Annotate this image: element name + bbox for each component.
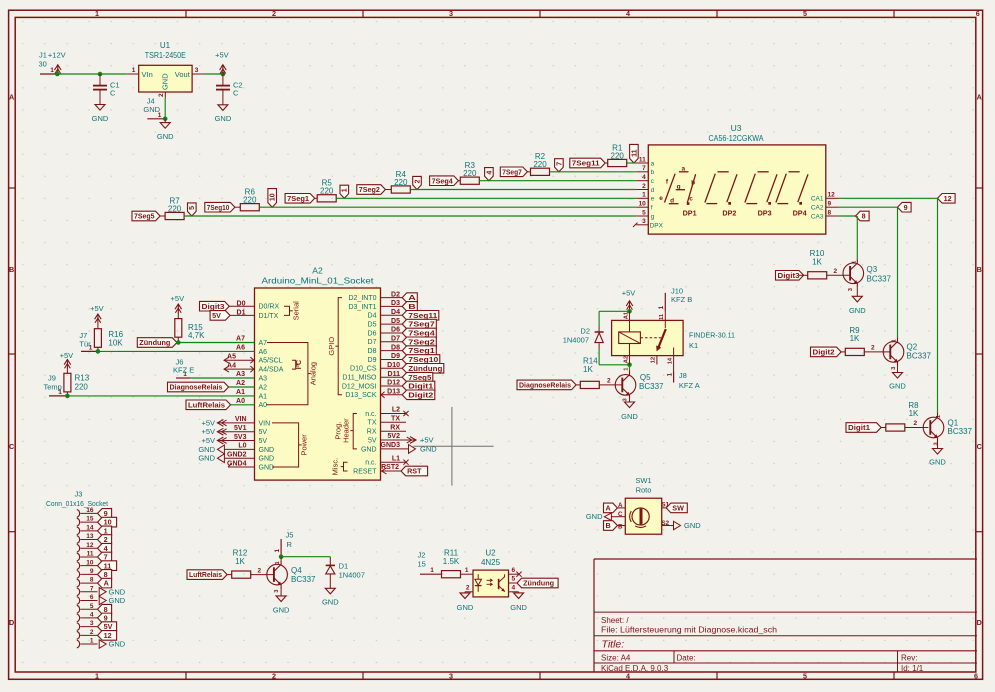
svg-text:2: 2 bbox=[104, 535, 108, 544]
wire bbox=[381, 394, 403, 396]
svg-text:14: 14 bbox=[667, 357, 673, 364]
global label 7Seg7 bbox=[500, 167, 527, 177]
svg-text:2: 2 bbox=[642, 183, 646, 190]
svg-text:A1: A1 bbox=[236, 389, 245, 396]
resistor R6 220 bbox=[240, 204, 259, 211]
svg-text:C: C bbox=[977, 442, 982, 451]
svg-text:Roto: Roto bbox=[636, 486, 652, 495]
svg-text:RX: RX bbox=[367, 429, 377, 436]
wire bbox=[98, 350, 255, 352]
ground bbox=[629, 399, 631, 402]
wire bbox=[629, 365, 631, 371]
svg-text:12: 12 bbox=[651, 357, 657, 363]
svg-text:5V1: 5V1 bbox=[234, 425, 247, 432]
svg-text:B: B bbox=[977, 265, 982, 274]
resistor R14 1K bbox=[580, 381, 599, 388]
global label 7Seg10 bbox=[402, 355, 440, 365]
resistor R4 220 bbox=[391, 186, 410, 193]
svg-text:A2: A2 bbox=[623, 356, 629, 363]
svg-text:14: 14 bbox=[86, 524, 94, 531]
global label 8 bbox=[856, 211, 870, 221]
svg-text:KFZ A: KFZ A bbox=[679, 381, 700, 390]
svg-text:1K: 1K bbox=[850, 334, 860, 343]
svg-text:A3: A3 bbox=[236, 371, 245, 378]
ground bbox=[518, 592, 520, 593]
svg-text:1: 1 bbox=[50, 67, 54, 74]
global label 7Seg4 bbox=[402, 328, 436, 338]
global label Digit3 bbox=[200, 301, 230, 311]
svg-text:A0: A0 bbox=[236, 398, 245, 405]
ground flag bbox=[674, 521, 681, 529]
wire bbox=[100, 73, 126, 75]
global label Zündung bbox=[137, 338, 177, 348]
wire bbox=[205, 73, 223, 75]
svg-text:6: 6 bbox=[512, 567, 516, 574]
resistor R11 1.5K bbox=[442, 571, 461, 578]
capacitor C1 bbox=[99, 74, 101, 85]
junction bbox=[627, 363, 632, 368]
wire bbox=[235, 206, 240, 208]
svg-text:RESET: RESET bbox=[353, 468, 377, 475]
svg-text:+5V: +5V bbox=[215, 51, 229, 60]
svg-text:5: 5 bbox=[642, 209, 646, 216]
svg-text:2: 2 bbox=[158, 93, 165, 97]
svg-text:DP1: DP1 bbox=[683, 208, 697, 217]
svg-text:D6: D6 bbox=[391, 327, 400, 334]
svg-text:4: 4 bbox=[642, 174, 646, 181]
svg-text:+5V: +5V bbox=[201, 418, 215, 427]
svg-text:3: 3 bbox=[449, 9, 453, 18]
svg-text:6: 6 bbox=[976, 9, 980, 18]
svg-text:TSR1-2450E: TSR1-2450E bbox=[145, 51, 186, 60]
svg-text:TX: TX bbox=[368, 420, 377, 427]
svg-text:GND: GND bbox=[109, 596, 126, 605]
svg-text:D7: D7 bbox=[368, 339, 377, 346]
svg-text:BC337: BC337 bbox=[639, 382, 664, 391]
wire bbox=[381, 297, 403, 299]
transistor Q1 BC337 bbox=[923, 417, 944, 438]
global label Digit1 bbox=[846, 423, 881, 433]
svg-text:7Seg2: 7Seg2 bbox=[408, 337, 435, 346]
svg-text:5: 5 bbox=[512, 576, 516, 583]
wire bbox=[230, 314, 255, 316]
svg-text:CA56-12CGKWA: CA56-12CGKWA bbox=[709, 133, 764, 143]
global label 7Seg10 bbox=[205, 202, 235, 212]
no-connect bbox=[516, 572, 521, 577]
wire bbox=[229, 386, 255, 388]
svg-text:+12V: +12V bbox=[48, 51, 66, 60]
svg-text:10: 10 bbox=[270, 193, 277, 201]
junction bbox=[98, 72, 103, 77]
svg-text:15: 15 bbox=[86, 516, 94, 523]
svg-text:RX: RX bbox=[390, 424, 400, 431]
wire bbox=[881, 427, 886, 429]
svg-text:4N25: 4N25 bbox=[481, 558, 501, 567]
svg-text:Temp: Temp bbox=[44, 383, 62, 392]
wire bbox=[479, 180, 636, 182]
wire bbox=[259, 206, 636, 208]
global label 7Seg4 bbox=[430, 176, 459, 186]
global label Digit3 bbox=[776, 271, 804, 281]
svg-text:DP4: DP4 bbox=[793, 208, 807, 217]
svg-text:GND: GND bbox=[198, 445, 215, 454]
svg-text:5V: 5V bbox=[104, 622, 113, 631]
global label 7Seg5 bbox=[132, 211, 160, 221]
svg-text:2: 2 bbox=[90, 629, 94, 636]
wire bbox=[67, 395, 254, 397]
global label SW bbox=[666, 503, 687, 513]
power +5V bbox=[626, 301, 633, 306]
net label 1 bbox=[340, 185, 349, 198]
svg-text:5V: 5V bbox=[259, 438, 268, 445]
wire bbox=[799, 274, 808, 276]
svg-text:+5V: +5V bbox=[622, 288, 636, 297]
svg-text:GND: GND bbox=[109, 587, 126, 596]
global label 1 bbox=[98, 526, 112, 536]
svg-text:D0: D0 bbox=[237, 300, 246, 307]
global label A bbox=[98, 578, 112, 588]
pin n.c. L1 bbox=[381, 461, 407, 463]
global label A bbox=[402, 293, 417, 303]
wire bbox=[381, 341, 403, 343]
svg-text:4,7K: 4,7K bbox=[188, 331, 205, 340]
resistor R13 220 bbox=[64, 373, 71, 392]
svg-text:b: b bbox=[691, 180, 695, 187]
svg-text:CA1: CA1 bbox=[811, 196, 824, 203]
pin RX stub bbox=[381, 430, 407, 432]
global label A bbox=[604, 503, 618, 513]
net label 11 bbox=[630, 144, 639, 163]
svg-text:DiagnoseRelais: DiagnoseRelais bbox=[170, 383, 223, 392]
svg-text:GND: GND bbox=[215, 114, 232, 123]
svg-text:1: 1 bbox=[642, 192, 646, 199]
svg-text:2: 2 bbox=[607, 378, 611, 385]
svg-text:LuftRelais: LuftRelais bbox=[189, 570, 222, 579]
svg-text:GND: GND bbox=[157, 132, 174, 141]
wire bbox=[381, 385, 403, 387]
svg-text:BC337: BC337 bbox=[907, 352, 932, 361]
svg-text:220: 220 bbox=[394, 178, 408, 187]
net label 4 bbox=[485, 168, 494, 181]
svg-text:A: A bbox=[104, 579, 109, 588]
svg-text:GND: GND bbox=[849, 306, 866, 315]
svg-text:5V2: 5V2 bbox=[388, 433, 401, 440]
svg-text:GND2: GND2 bbox=[227, 452, 247, 459]
wire bbox=[937, 198, 939, 413]
resistor R2 220 bbox=[531, 168, 550, 175]
svg-text:A2: A2 bbox=[236, 380, 245, 387]
wire bbox=[336, 197, 636, 199]
connector J10 KFZ B bbox=[664, 293, 666, 312]
svg-text:7: 7 bbox=[556, 162, 563, 166]
global label 10 bbox=[98, 517, 117, 527]
display U3 CA56-12CGKWA bbox=[648, 145, 826, 234]
svg-text:A: A bbox=[408, 293, 416, 302]
diode D1 1N4007 bbox=[329, 557, 331, 566]
junction bbox=[96, 349, 101, 354]
connector J8 KFZ A bbox=[673, 372, 675, 383]
arduino socket A2 bbox=[255, 288, 381, 480]
svg-text:SW: SW bbox=[672, 504, 684, 513]
svg-text:GND: GND bbox=[259, 447, 275, 454]
svg-text:KiCad E.D.A. 9.0.3: KiCad E.D.A. 9.0.3 bbox=[601, 664, 669, 673]
svg-text:+5V: +5V bbox=[60, 351, 74, 360]
svg-text:5V: 5V bbox=[259, 429, 268, 436]
svg-text:1: 1 bbox=[342, 188, 349, 192]
svg-text:9: 9 bbox=[828, 201, 832, 208]
ground flag bbox=[381, 448, 409, 450]
svg-text:1: 1 bbox=[666, 373, 673, 377]
svg-text:B: B bbox=[606, 521, 611, 530]
svg-text:GND: GND bbox=[457, 603, 474, 612]
svg-text:1: 1 bbox=[132, 67, 136, 74]
svg-text:D9: D9 bbox=[368, 357, 377, 364]
pin A5 stub bbox=[224, 359, 255, 361]
svg-text:1K: 1K bbox=[812, 257, 822, 266]
wire bbox=[605, 162, 608, 164]
svg-text:13: 13 bbox=[86, 533, 94, 540]
svg-text:7: 7 bbox=[642, 165, 646, 172]
svg-text:L2: L2 bbox=[392, 407, 400, 414]
svg-text:d: d bbox=[651, 187, 655, 194]
svg-text:D11: D11 bbox=[388, 371, 401, 378]
power +5V bbox=[220, 65, 227, 70]
power +5V flag bbox=[217, 431, 254, 433]
svg-text:9: 9 bbox=[104, 614, 108, 623]
svg-text:GND: GND bbox=[259, 456, 275, 463]
svg-text:R13: R13 bbox=[75, 374, 90, 383]
global label 7Seg7 bbox=[402, 319, 436, 329]
svg-text:J5: J5 bbox=[286, 531, 294, 540]
capacitor C2 bbox=[222, 74, 224, 85]
svg-text:1K: 1K bbox=[235, 557, 245, 566]
svg-text:I²C: I²C bbox=[296, 360, 303, 369]
svg-text:3: 3 bbox=[642, 218, 646, 225]
wire bbox=[381, 367, 403, 369]
svg-text:A4: A4 bbox=[227, 362, 236, 369]
svg-text:Zündung: Zündung bbox=[408, 364, 442, 373]
svg-text:2: 2 bbox=[272, 9, 276, 18]
ground flag bbox=[99, 588, 106, 596]
pin n.c. L2 bbox=[381, 413, 407, 415]
svg-text:L1: L1 bbox=[392, 455, 400, 462]
svg-text:7Seg4: 7Seg4 bbox=[408, 329, 435, 338]
global label 9 bbox=[98, 613, 112, 623]
svg-text:B: B bbox=[618, 524, 623, 531]
svg-text:GND: GND bbox=[160, 73, 169, 90]
svg-text:Digit2: Digit2 bbox=[813, 348, 835, 357]
svg-text:4: 4 bbox=[104, 544, 108, 553]
svg-text:+5V: +5V bbox=[90, 304, 104, 313]
svg-text:3: 3 bbox=[90, 620, 94, 627]
svg-text:n.c.: n.c. bbox=[365, 411, 376, 418]
ground bbox=[464, 592, 466, 593]
svg-text:D2: D2 bbox=[391, 291, 400, 298]
global label 12 bbox=[98, 631, 117, 641]
svg-text:D10_CS: D10_CS bbox=[350, 366, 377, 373]
svg-text:Zündung: Zündung bbox=[139, 338, 170, 347]
power +5V bbox=[95, 314, 102, 319]
wire bbox=[381, 323, 403, 325]
svg-text:+5V: +5V bbox=[420, 436, 434, 445]
svg-text:VIn: VIn bbox=[142, 70, 153, 79]
junction bbox=[55, 72, 60, 77]
svg-text:220: 220 bbox=[533, 160, 547, 169]
svg-text:Q2: Q2 bbox=[907, 342, 918, 351]
svg-text:2: 2 bbox=[834, 268, 838, 275]
svg-text:GND: GND bbox=[109, 640, 126, 649]
cursor crosshair bbox=[451, 407, 453, 486]
ground bbox=[280, 589, 282, 596]
svg-text:Digit2: Digit2 bbox=[408, 390, 433, 399]
wire bbox=[381, 332, 403, 334]
svg-text:220: 220 bbox=[168, 204, 182, 213]
svg-text:220: 220 bbox=[243, 196, 257, 205]
svg-text:D4: D4 bbox=[368, 313, 377, 320]
global label Digit2 bbox=[811, 347, 842, 357]
svg-text:1: 1 bbox=[104, 526, 108, 535]
svg-text:7: 7 bbox=[90, 585, 94, 592]
wire bbox=[381, 305, 403, 307]
ground flag bbox=[99, 596, 106, 604]
svg-text:RST: RST bbox=[407, 467, 422, 476]
svg-text:BC337: BC337 bbox=[948, 427, 973, 436]
global label SV bbox=[210, 311, 230, 321]
svg-text:BC337: BC337 bbox=[867, 274, 892, 283]
svg-text:7Seg10: 7Seg10 bbox=[207, 203, 230, 212]
connector J7 Tür bbox=[81, 350, 98, 352]
global label 8 bbox=[98, 570, 112, 580]
svg-text:6: 6 bbox=[90, 594, 94, 601]
junction bbox=[627, 309, 632, 314]
svg-text:9: 9 bbox=[90, 568, 94, 575]
svg-text:D3_INT1: D3_INT1 bbox=[348, 304, 376, 311]
net label 7 bbox=[555, 159, 564, 172]
svg-text:g: g bbox=[651, 213, 655, 220]
svg-text:GND: GND bbox=[198, 454, 215, 463]
svg-text:Q5: Q5 bbox=[640, 373, 651, 382]
svg-text:1N4007: 1N4007 bbox=[563, 335, 589, 344]
junction bbox=[163, 117, 168, 122]
svg-text:Conn_01x16_Socket: Conn_01x16_Socket bbox=[46, 501, 108, 508]
ground flag bbox=[99, 640, 106, 648]
global label B bbox=[402, 302, 417, 312]
svg-text:D0/RX: D0/RX bbox=[259, 304, 280, 311]
power +5V flag bbox=[381, 439, 417, 441]
svg-text:2: 2 bbox=[272, 671, 276, 680]
svg-text:2: 2 bbox=[871, 345, 875, 352]
wire bbox=[839, 206, 898, 208]
connector J1 pin 1 bbox=[40, 73, 57, 75]
svg-text:A7: A7 bbox=[259, 340, 268, 347]
wire bbox=[897, 207, 899, 337]
svg-text:J2: J2 bbox=[418, 551, 426, 560]
svg-text:A2: A2 bbox=[312, 265, 323, 275]
ground flag bbox=[224, 457, 254, 459]
svg-text:GND: GND bbox=[143, 105, 160, 114]
svg-text:4: 4 bbox=[626, 9, 630, 18]
svg-text:1N4007: 1N4007 bbox=[339, 570, 365, 579]
resistor R8 1K bbox=[886, 424, 905, 431]
svg-text:10K: 10K bbox=[108, 338, 123, 347]
connector J6 KFZ E bbox=[176, 377, 190, 379]
svg-text:D7: D7 bbox=[391, 336, 400, 343]
svg-text:DP2: DP2 bbox=[722, 208, 736, 217]
svg-text:Header: Header bbox=[341, 418, 350, 443]
pin GND4 stub bbox=[228, 466, 255, 468]
svg-text:U1: U1 bbox=[160, 41, 171, 50]
global label 8 bbox=[98, 604, 112, 614]
svg-text:e: e bbox=[651, 196, 655, 203]
svg-text:5V: 5V bbox=[212, 311, 221, 320]
wire bbox=[839, 215, 858, 217]
ground bbox=[164, 119, 166, 123]
resistor R15 4,7K bbox=[175, 319, 182, 338]
svg-text:8: 8 bbox=[104, 605, 108, 614]
svg-text:5: 5 bbox=[189, 206, 196, 210]
ground flag bbox=[604, 513, 611, 521]
svg-text:8: 8 bbox=[828, 209, 832, 216]
connector J2 15 bbox=[420, 573, 442, 575]
global label 7Seg2 bbox=[357, 185, 386, 195]
svg-text:A: A bbox=[606, 504, 611, 513]
svg-text:J8: J8 bbox=[679, 371, 687, 380]
svg-text:5: 5 bbox=[803, 9, 807, 18]
svg-text:SW1: SW1 bbox=[635, 476, 651, 485]
power +12V bbox=[55, 65, 62, 70]
svg-text:D4: D4 bbox=[391, 309, 400, 316]
global label DiagnoseRelais bbox=[517, 380, 576, 390]
svg-text:J3: J3 bbox=[75, 490, 83, 499]
wire bbox=[57, 73, 100, 75]
wire bbox=[385, 189, 391, 191]
svg-text:GND: GND bbox=[889, 382, 906, 391]
svg-text:D13: D13 bbox=[387, 389, 400, 396]
resistor R7 220 bbox=[165, 212, 184, 219]
svg-text:12: 12 bbox=[104, 631, 112, 640]
svg-text:GND: GND bbox=[322, 598, 339, 607]
svg-text:1: 1 bbox=[465, 567, 469, 574]
svg-text:U2: U2 bbox=[485, 549, 496, 558]
svg-text:KFZ B: KFZ B bbox=[671, 295, 692, 304]
junction bbox=[176, 340, 181, 345]
svg-text:Tür: Tür bbox=[79, 340, 91, 349]
wire bbox=[381, 376, 403, 378]
svg-text:4: 4 bbox=[486, 171, 493, 175]
svg-text:LuftRelais: LuftRelais bbox=[188, 400, 225, 409]
svg-text:KFZ E: KFZ E bbox=[173, 366, 194, 375]
wire bbox=[527, 171, 530, 173]
svg-text:8: 8 bbox=[862, 212, 866, 221]
svg-text:DiagnoseRelais: DiagnoseRelais bbox=[519, 381, 571, 390]
svg-text:Digit1: Digit1 bbox=[848, 423, 870, 432]
wire bbox=[550, 171, 637, 173]
svg-text:c: c bbox=[689, 195, 693, 202]
svg-text:A0: A0 bbox=[259, 402, 268, 409]
svg-text:A1: A1 bbox=[623, 311, 629, 319]
pin RESET / global label RST bbox=[381, 470, 402, 472]
svg-text:C: C bbox=[233, 88, 239, 97]
ground bbox=[897, 366, 899, 372]
svg-text:GND: GND bbox=[586, 512, 603, 521]
svg-text:Power: Power bbox=[300, 434, 309, 456]
global label LuftRelais bbox=[187, 570, 227, 580]
svg-text:a: a bbox=[651, 160, 655, 167]
svg-text:3: 3 bbox=[449, 671, 453, 680]
svg-text:8: 8 bbox=[90, 577, 94, 584]
global label B bbox=[604, 521, 618, 531]
svg-text:Sheet: /: Sheet: / bbox=[601, 616, 629, 625]
